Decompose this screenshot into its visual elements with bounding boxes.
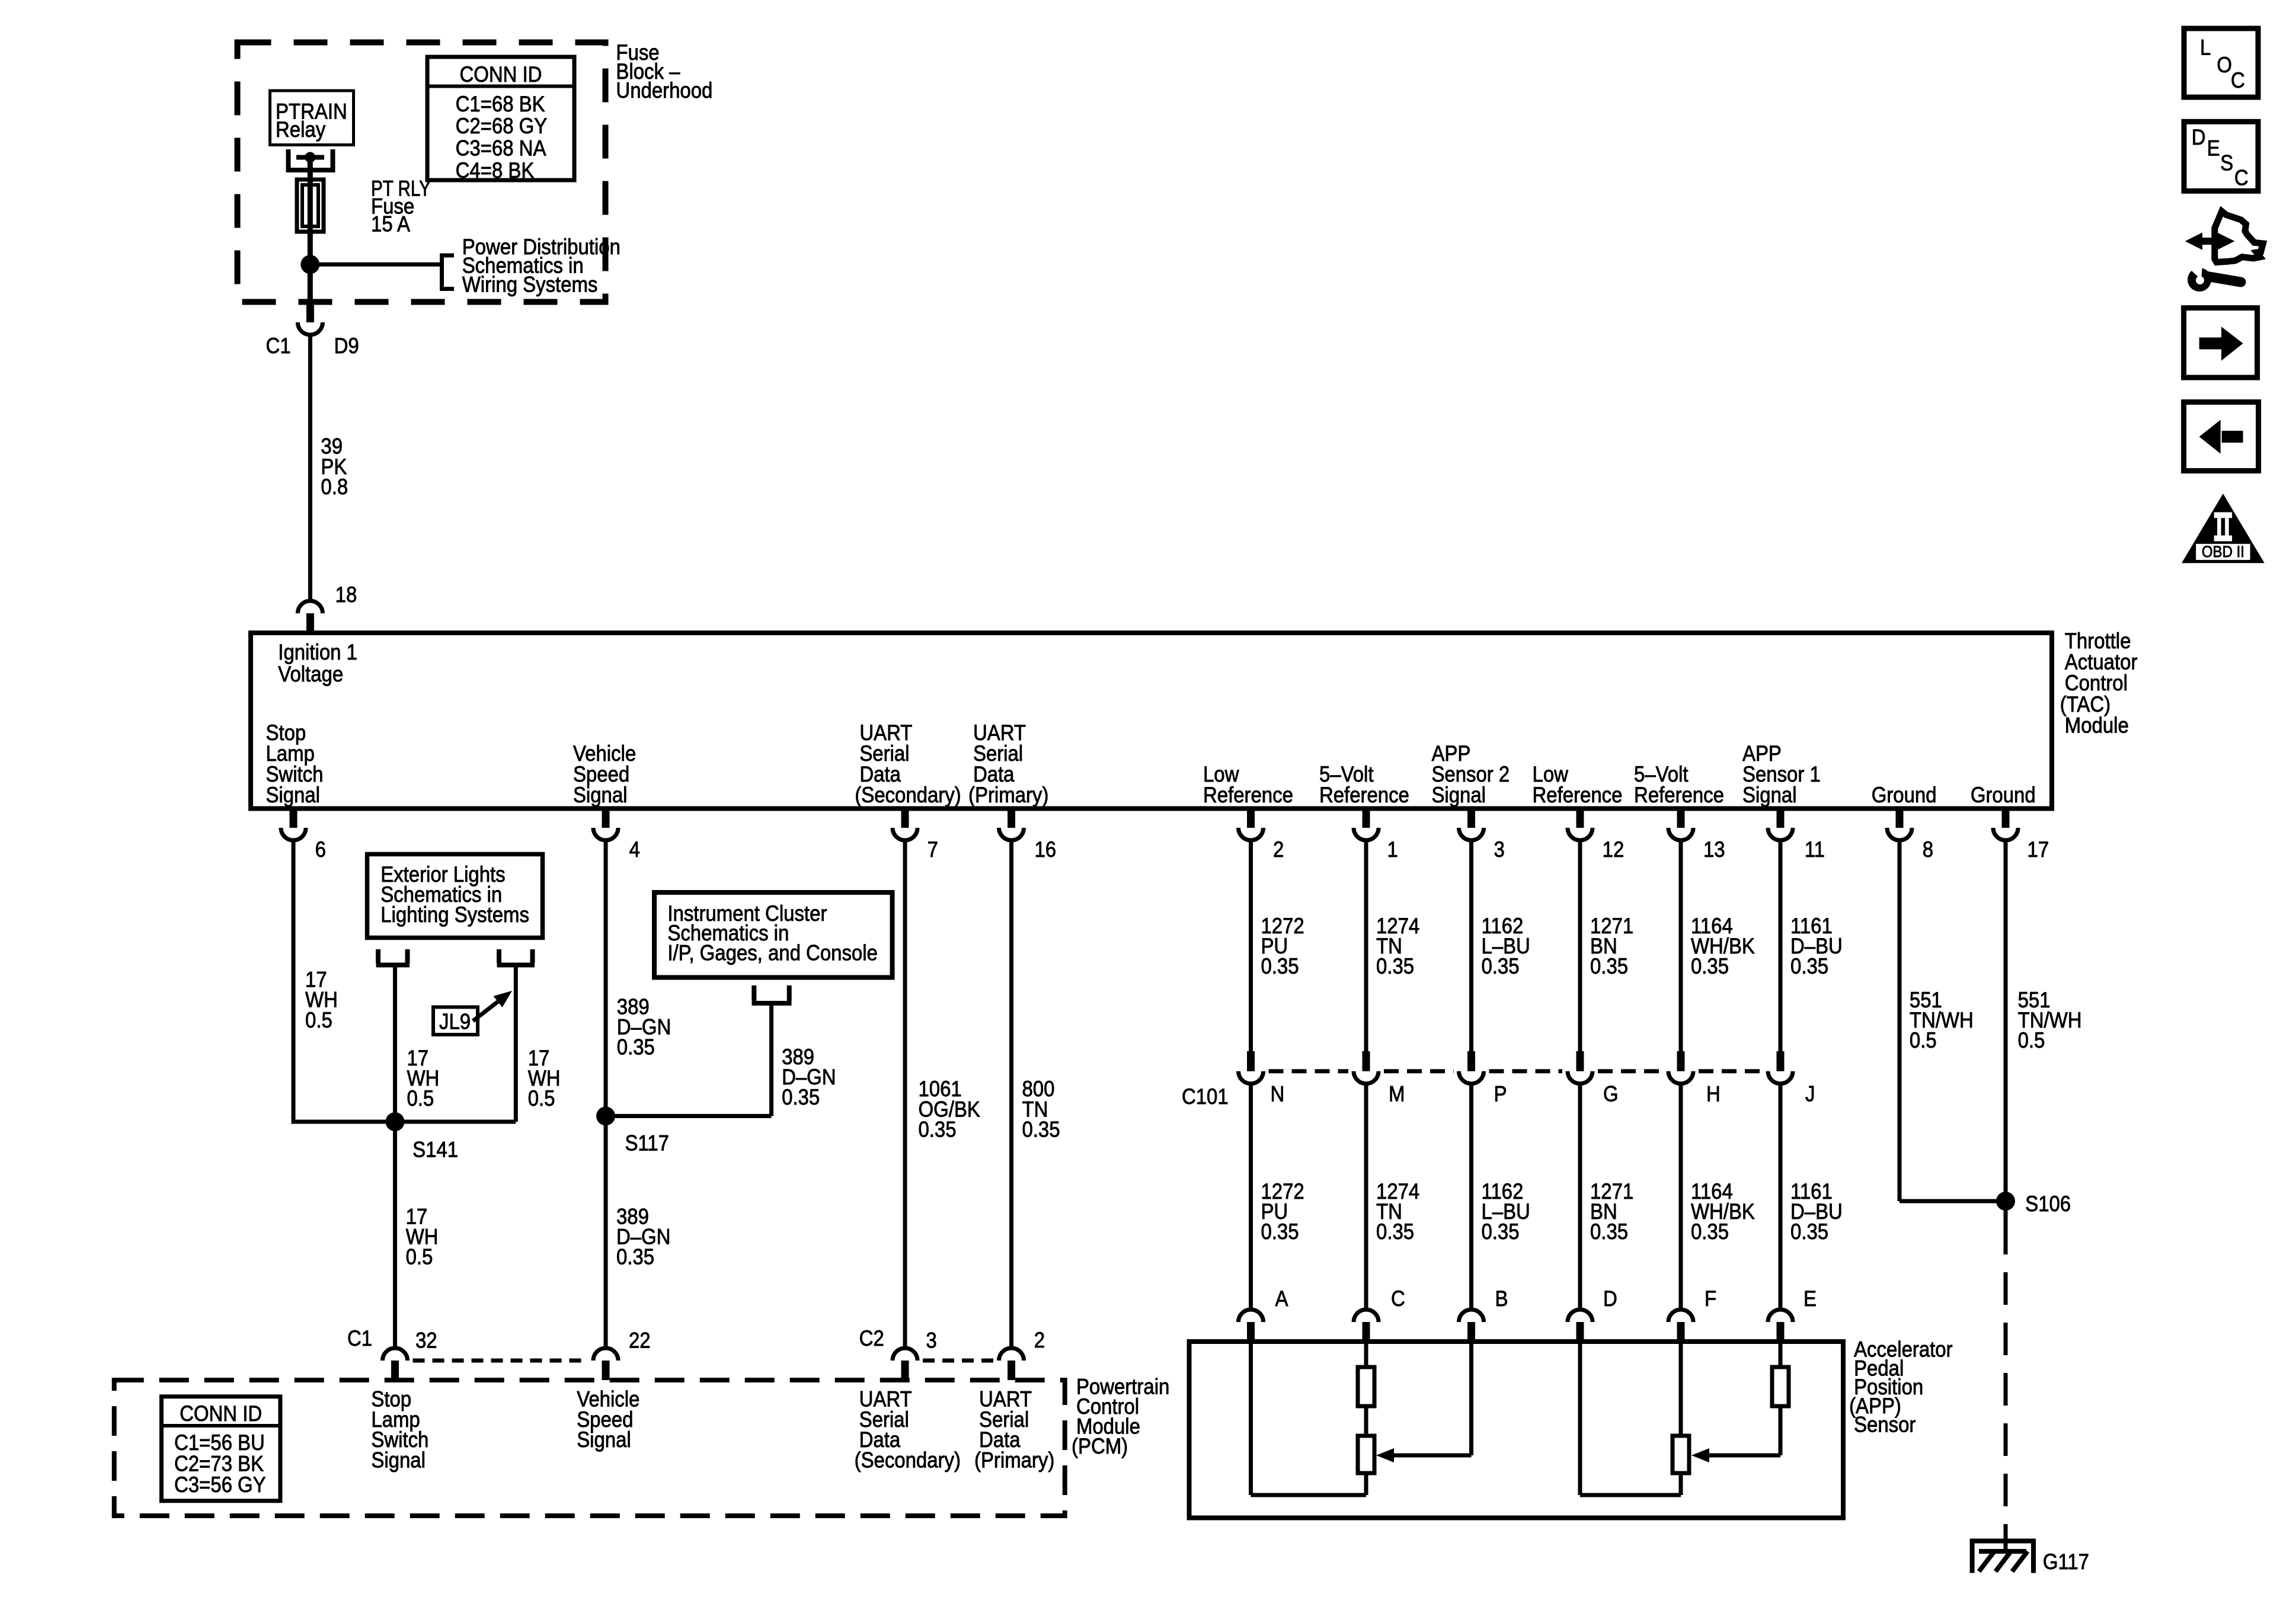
- svg-text:0.35: 0.35: [1590, 954, 1628, 978]
- svg-text:(PCM): (PCM): [1072, 1434, 1128, 1458]
- svg-text:0.35: 0.35: [1261, 1219, 1299, 1244]
- svg-text:OBD II: OBD II: [2202, 543, 2244, 561]
- svg-text:Signal: Signal: [577, 1427, 631, 1452]
- svg-text:7: 7: [928, 837, 938, 862]
- svg-text:2: 2: [1273, 837, 1284, 862]
- svg-text:6: 6: [315, 837, 326, 862]
- svg-text:0.5: 0.5: [406, 1245, 433, 1269]
- svg-text:0.8: 0.8: [321, 475, 348, 499]
- svg-text:C2=68 GY: C2=68 GY: [456, 114, 548, 138]
- svg-text:0.35: 0.35: [1376, 954, 1414, 978]
- svg-text:S106: S106: [2025, 1192, 2071, 1216]
- svg-text:32: 32: [415, 1329, 437, 1353]
- svg-text:0.35: 0.35: [616, 1245, 654, 1269]
- svg-text:0.35: 0.35: [1790, 954, 1828, 978]
- svg-text:0.35: 0.35: [1481, 954, 1519, 978]
- svg-text:CONN ID: CONN ID: [459, 62, 542, 87]
- svg-text:17: 17: [2028, 837, 2049, 862]
- svg-text:13: 13: [1703, 837, 1725, 862]
- svg-text:D9: D9: [334, 334, 359, 358]
- svg-text:Wiring Systems: Wiring Systems: [462, 273, 598, 297]
- svg-text:H: H: [1706, 1082, 1721, 1106]
- svg-text:(Primary): (Primary): [974, 1448, 1054, 1473]
- svg-text:Voltage: Voltage: [278, 662, 343, 686]
- svg-text:(Primary): (Primary): [968, 783, 1048, 807]
- svg-text:0.35: 0.35: [1022, 1118, 1060, 1142]
- svg-text:O: O: [2217, 53, 2232, 77]
- svg-text:C1: C1: [266, 334, 291, 358]
- svg-text:Reference: Reference: [1319, 783, 1409, 807]
- svg-text:(Secondary): (Secondary): [855, 1448, 961, 1473]
- svg-text:0.35: 0.35: [1691, 1219, 1729, 1244]
- svg-text:C1=68 BK: C1=68 BK: [456, 92, 545, 116]
- svg-text:8: 8: [1923, 837, 1933, 862]
- svg-text:0.35: 0.35: [1376, 1219, 1414, 1244]
- svg-text:Underhood: Underhood: [616, 78, 712, 103]
- svg-text:22: 22: [629, 1329, 651, 1353]
- svg-text:12: 12: [1603, 837, 1625, 862]
- svg-text:E: E: [1803, 1286, 1817, 1311]
- svg-text:S: S: [2220, 151, 2233, 175]
- svg-text:3: 3: [1494, 837, 1504, 862]
- svg-text:C2: C2: [859, 1326, 884, 1350]
- svg-text:Sensor: Sensor: [1854, 1413, 1916, 1437]
- svg-text:C3=56 GY: C3=56 GY: [174, 1473, 266, 1497]
- svg-text:0.5: 0.5: [407, 1086, 434, 1110]
- svg-text:E: E: [2207, 136, 2220, 161]
- svg-text:(Secondary): (Secondary): [855, 783, 961, 807]
- svg-text:18: 18: [335, 582, 357, 607]
- svg-text:I/P, Gages, and Console: I/P, Gages, and Console: [667, 941, 877, 965]
- svg-text:Ignition 1: Ignition 1: [278, 640, 357, 664]
- svg-text:J: J: [1805, 1082, 1815, 1106]
- svg-text:C: C: [1391, 1286, 1405, 1311]
- svg-text:S141: S141: [412, 1138, 458, 1162]
- svg-text:0.35: 0.35: [1261, 954, 1299, 978]
- svg-text:Signal: Signal: [573, 783, 628, 807]
- svg-text:0.5: 0.5: [305, 1008, 332, 1032]
- svg-text:M: M: [1389, 1082, 1405, 1106]
- svg-text:C4=8 BK: C4=8 BK: [456, 158, 535, 183]
- svg-text:2: 2: [1034, 1328, 1045, 1352]
- svg-text:0.5: 0.5: [2018, 1028, 2045, 1052]
- svg-text:F: F: [1705, 1286, 1716, 1311]
- svg-text:D: D: [2192, 125, 2206, 149]
- svg-text:C101: C101: [1182, 1084, 1229, 1109]
- svg-text:0.35: 0.35: [1481, 1219, 1519, 1244]
- svg-text:A: A: [1275, 1286, 1288, 1311]
- svg-text:0.35: 0.35: [918, 1118, 956, 1142]
- svg-text:G: G: [1603, 1082, 1619, 1106]
- svg-text:Reference: Reference: [1533, 783, 1623, 807]
- svg-text:Reference: Reference: [1203, 783, 1293, 807]
- svg-text:0.35: 0.35: [1590, 1219, 1628, 1244]
- svg-text:Signal: Signal: [1742, 783, 1797, 807]
- svg-text:S117: S117: [625, 1131, 669, 1156]
- svg-text:C: C: [2234, 166, 2249, 190]
- svg-text:Reference: Reference: [1634, 783, 1724, 807]
- svg-text:Signal: Signal: [1431, 783, 1486, 807]
- svg-text:L: L: [2200, 36, 2211, 60]
- svg-text:3: 3: [926, 1329, 936, 1353]
- svg-text:Signal: Signal: [371, 1448, 426, 1473]
- svg-text:4: 4: [629, 837, 640, 862]
- svg-text:Ground: Ground: [1872, 783, 1937, 807]
- svg-text:0.35: 0.35: [782, 1085, 820, 1109]
- svg-text:0.5: 0.5: [528, 1086, 555, 1110]
- svg-text:C: C: [2231, 68, 2245, 92]
- svg-text:11: 11: [1805, 837, 1825, 862]
- svg-text:16: 16: [1034, 837, 1056, 862]
- svg-text:Signal: Signal: [266, 783, 320, 807]
- svg-text:P: P: [1494, 1082, 1507, 1106]
- svg-text:G117: G117: [2043, 1550, 2089, 1574]
- svg-text:C1: C1: [347, 1326, 372, 1350]
- svg-text:B: B: [1495, 1286, 1508, 1311]
- svg-text:CONN ID: CONN ID: [180, 1401, 262, 1426]
- svg-text:C3=68 NA: C3=68 NA: [456, 136, 546, 161]
- svg-text:0.35: 0.35: [1691, 954, 1729, 978]
- svg-text:N: N: [1270, 1082, 1284, 1106]
- svg-text:0.35: 0.35: [617, 1035, 655, 1060]
- svg-text:Relay: Relay: [276, 117, 326, 142]
- svg-text:Module: Module: [2065, 713, 2129, 738]
- svg-text:1: 1: [1387, 837, 1398, 862]
- svg-text:JL9: JL9: [439, 1010, 471, 1034]
- svg-text:Ground: Ground: [1971, 783, 2036, 807]
- svg-text:Lighting Systems: Lighting Systems: [380, 902, 529, 927]
- svg-text:15 A: 15 A: [371, 212, 411, 236]
- svg-text:0.5: 0.5: [1910, 1028, 1937, 1052]
- svg-text:D: D: [1603, 1286, 1617, 1311]
- svg-text:0.35: 0.35: [1790, 1219, 1828, 1244]
